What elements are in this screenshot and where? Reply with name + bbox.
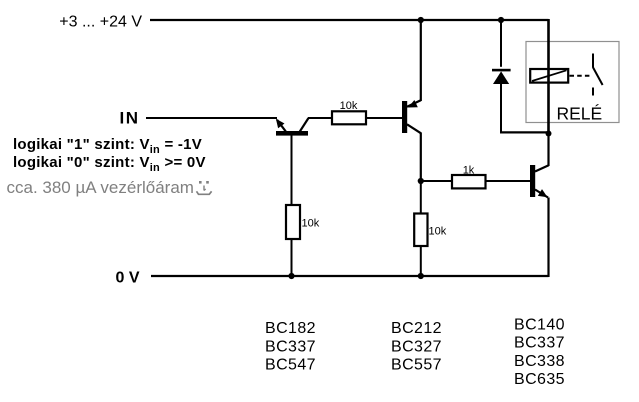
ground rail 0V (151, 275, 549, 277)
svg-text:0 V: 0 V (116, 270, 140, 287)
svg-text:BC337: BC337 (265, 338, 316, 355)
wire IN (146, 117, 277, 119)
wire diode anode down (500, 84, 502, 134)
relay switch contact (593, 54, 603, 96)
smiley (197, 181, 212, 194)
resistor R1 10k (horizontal) (332, 100, 366, 124)
junction on 0V rail (R3) (418, 273, 424, 279)
wire R4 to 0V rail (291, 239, 293, 276)
wire T3 collector up to relay node (547, 134, 549, 167)
svg-text:10k: 10k (302, 218, 320, 230)
transistor T3 (NPN) (530, 165, 549, 198)
wire diode from +V rail (500, 20, 502, 67)
resistor R3 10k (vertical) (414, 214, 447, 247)
wire R2 to T3 base (486, 180, 531, 182)
power rail +V (150, 19, 549, 21)
resistor R4 10k (vertical) (286, 205, 320, 239)
wire T2 collector down (420, 133, 422, 182)
svg-text:logikai "1" szint: Vin = -1V: logikai "1" szint: Vin = -1V (13, 136, 202, 156)
svg-text:1k: 1k (463, 165, 475, 177)
wire T2 emitter to +V rail (420, 20, 422, 101)
diode D1 (flyback) (492, 69, 511, 84)
svg-text:logikai "0" szint: Vin >= 0V: logikai "0" szint: Vin >= 0V (13, 154, 206, 174)
relay coil diagonal (532, 70, 567, 81)
wire T1 collector to R1 (308, 117, 332, 119)
junction node T2 collector (418, 178, 424, 184)
wire relay coil vertical (547, 19, 550, 134)
relay actuator dashed link (570, 75, 590, 77)
wire T1 base down (291, 135, 293, 205)
svg-text:BC140: BC140 (514, 316, 565, 333)
junction on +V rail (diode) (498, 17, 504, 23)
relay enclosure box (526, 42, 619, 123)
svg-text:BC547: BC547 (265, 357, 316, 374)
svg-text:RELÉ: RELÉ (557, 104, 603, 124)
resistor R2 1k (horizontal) (452, 165, 486, 189)
svg-text:BC557: BC557 (391, 357, 442, 374)
junction on +V rail (T2 emitter) (418, 17, 424, 23)
junction on 0V rail (R4) (288, 273, 294, 279)
junction node relay/diode/T3 (546, 131, 552, 137)
svg-text:BC182: BC182 (265, 320, 316, 337)
svg-text:10k: 10k (429, 226, 447, 238)
svg-text:+3 ... +24 V: +3 ... +24 V (59, 14, 142, 31)
wire junction to R2 (421, 180, 452, 182)
wire R3 to 0V rail (420, 246, 422, 276)
wire junction to R3 (420, 181, 422, 214)
transistor T2 (PNP) (402, 100, 421, 133)
svg-text:10k: 10k (340, 100, 358, 112)
svg-text:BC635: BC635 (514, 371, 565, 388)
wire diode to relay node (500, 131, 549, 133)
svg-text:BC337: BC337 (514, 335, 565, 352)
relay coil K1 (530, 69, 568, 83)
transistor T1 (NPN) (276, 118, 309, 136)
wire T3 emitter down to 0V (547, 198, 549, 278)
svg-text:BC338: BC338 (514, 353, 565, 370)
svg-text:BC327: BC327 (391, 338, 442, 355)
svg-text:IN: IN (120, 109, 140, 128)
svg-text:BC212: BC212 (391, 320, 442, 337)
svg-text:cca. 380 µA vezérlőáram: cca. 380 µA vezérlőáram (7, 178, 194, 197)
wire R1 to T2 base (366, 117, 402, 119)
